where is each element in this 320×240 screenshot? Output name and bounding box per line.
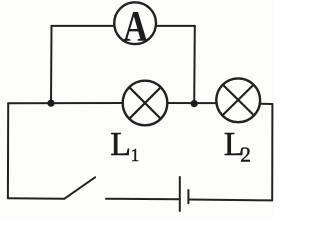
wire middle-right (L2 to right rail) (260, 103, 273, 105)
svg-text:A: A (123, 3, 148, 50)
junction node dot left (47, 100, 54, 107)
battery short plate (-) (187, 190, 189, 203)
wire bottom-right (battery to right corner) (188, 199, 272, 202)
svg-text:1: 1 (131, 145, 140, 165)
wire middle-left (left rail to lamp L1) (8, 102, 123, 104)
battery long plate (+) (179, 177, 181, 211)
lamp L2 cross (223, 85, 254, 116)
lamp L2 circle (216, 78, 260, 122)
wire left riser of ammeter branch (50, 26, 53, 103)
wire right rail vertical (271, 104, 273, 200)
switch S1 blade (open) (64, 177, 95, 198)
junction node dot right (191, 100, 198, 107)
wire right riser of ammeter branch (193, 26, 196, 104)
wire bottom-middle (switch to battery) (106, 198, 180, 201)
ammeter A circle (114, 2, 156, 44)
wire bottom-left (corner to switch) (8, 197, 65, 199)
wire middle (L1 to L2 through junction) (167, 102, 217, 104)
lamp L1 circle (123, 81, 168, 126)
lamp L1 cross (129, 87, 161, 119)
svg-text:2: 2 (240, 143, 251, 167)
svg-text:L: L (110, 126, 131, 163)
wire top-right horizontal (ammeter to corner) (156, 25, 195, 27)
wire top-left horizontal (junction to ammeter) (52, 25, 115, 27)
wire left rail vertical (7, 103, 9, 198)
